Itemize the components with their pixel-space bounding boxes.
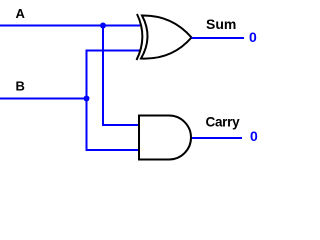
wire sum output [192, 37, 245, 39]
wire input B horizontal [0, 98, 88, 100]
svg-text:0: 0 [249, 29, 257, 45]
svg-text:A: A [16, 6, 26, 21]
junction dot on A [100, 23, 106, 29]
wire A branch to AND input 1 [102, 124, 139, 126]
junction dot on B [84, 96, 90, 102]
xor gate U1 input side extra arc [137, 14, 143, 60]
svg-text:0: 0 [250, 128, 258, 144]
svg-text:Sum: Sum [206, 16, 236, 32]
and gate U2 body [139, 116, 191, 160]
xor gate U1 body [141, 15, 192, 58]
wire A branch vertical down [102, 26, 104, 127]
wire carry output [192, 137, 242, 139]
svg-text:B: B [16, 79, 25, 94]
wire input A horizontal [0, 25, 140, 27]
wire B branch to AND input 2 [86, 149, 140, 151]
wire B branch to XOR input 2 [86, 50, 142, 52]
wire B branch vertical [86, 50, 88, 152]
svg-text:Carry: Carry [206, 115, 241, 130]
